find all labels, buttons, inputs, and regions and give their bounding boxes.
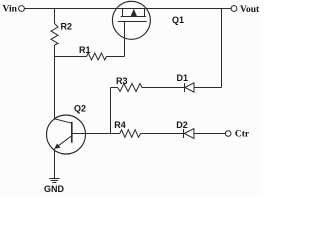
svg-text:D2: D2	[176, 120, 188, 130]
svg-text:Q1: Q1	[172, 15, 184, 25]
svg-text:Ctr: Ctr	[235, 130, 250, 140]
svg-text:Vin: Vin	[3, 4, 18, 14]
svg-text:Vout: Vout	[240, 5, 260, 15]
svg-text:D1: D1	[177, 73, 189, 83]
svg-text:GND: GND	[44, 184, 65, 194]
svg-text:R1: R1	[79, 45, 91, 55]
svg-text:R4: R4	[114, 120, 126, 130]
svg-text:Q2: Q2	[74, 104, 86, 114]
svg-text:R2: R2	[61, 21, 73, 31]
svg-text:R3: R3	[116, 76, 128, 86]
